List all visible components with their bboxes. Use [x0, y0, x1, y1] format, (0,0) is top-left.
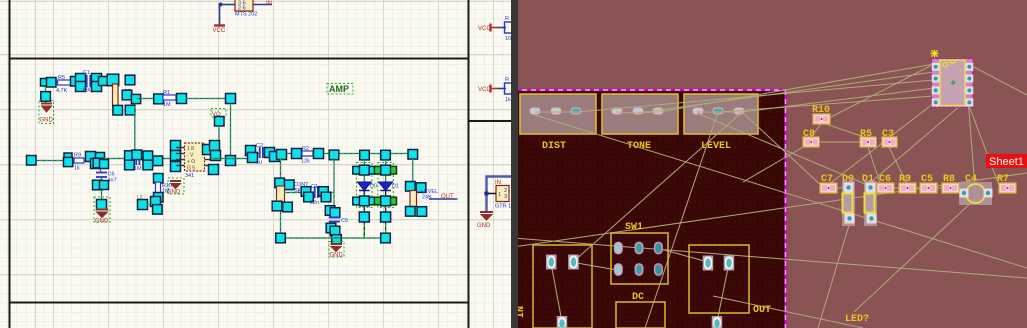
node d0g — [359, 212, 369, 222]
capacitor C6 — [96, 172, 117, 184]
node c6a — [93, 158, 103, 168]
wire to VCC top — [219, 5, 221, 26]
schematic svg — [0, 0, 513, 328]
node c3d — [321, 192, 331, 202]
wire rn f4 — [742, 88, 934, 112]
wire rn row link1 — [834, 187, 844, 189]
node r2d — [91, 159, 101, 169]
resistor edge1 — [505, 16, 513, 42]
pot CONT — [277, 182, 310, 203]
node c6b — [100, 160, 109, 169]
node m6 — [292, 149, 302, 159]
svg-text:G 5: G 5 — [187, 166, 195, 172]
node d1 top junction — [381, 150, 391, 160]
node m1 — [246, 146, 256, 156]
wire rn r10 r5 — [826, 124, 864, 137]
wire rn pads1 — [535, 111, 578, 113]
node st4 — [131, 94, 140, 103]
node d0 top junction — [360, 150, 370, 160]
node c1a — [275, 178, 285, 188]
pcb svg — [513, 0, 1027, 328]
wire rn out pads — [717, 263, 729, 322]
wire bottom row — [281, 237, 386, 239]
node d1a green — [374, 166, 382, 174]
wire corner down — [230, 104, 232, 158]
resistor edge2 — [505, 77, 513, 103]
node d1g — [381, 212, 391, 222]
resistor R1 — [163, 90, 176, 108]
resistor R8p — [942, 183, 959, 193]
svg-text:R9: R9 — [74, 153, 81, 159]
wire rn s2 — [742, 112, 824, 188]
wire d0 vertical — [363, 160, 365, 238]
node c6d — [100, 181, 109, 190]
wire rn f3 — [578, 80, 934, 112]
capacitor mc — [134, 160, 142, 173]
svg-text:1u: 1u — [256, 160, 262, 166]
jack IN — [533, 245, 592, 328]
sheet border top — [9, 58, 469, 60]
svg-text:1k: 1k — [74, 166, 80, 172]
svg-text:AMP: AMP — [329, 84, 349, 94]
node lv3 — [406, 207, 416, 217]
svg-text:- V: - V — [187, 153, 194, 159]
power VCC right2 — [478, 85, 506, 94]
board region — [513, 91, 786, 328]
node t2 — [47, 78, 57, 88]
node m5 — [277, 150, 287, 160]
svg-text:LED?: LED? — [845, 314, 869, 325]
node r2b — [64, 153, 72, 158]
resistor R10v — [154, 174, 173, 203]
sheet border right — [468, 0, 470, 328]
resistor R5p — [860, 129, 876, 147]
wire rn r10 c8 — [811, 124, 821, 137]
node d0b — [367, 166, 375, 174]
wire rn row link3 — [912, 187, 925, 189]
node r2c — [86, 152, 96, 162]
wire r1 to corner — [186, 98, 231, 100]
capacitor C5p — [920, 183, 937, 193]
node r1a — [154, 94, 164, 104]
capacitor C3p — [882, 129, 897, 147]
wire rn dip edge — [968, 64, 1027, 95]
sheet border right-pane — [468, 120, 511, 122]
node t4 — [76, 74, 86, 84]
capacitor C7p — [820, 183, 837, 193]
node t1 — [41, 79, 49, 87]
diode D0p — [842, 181, 855, 226]
wire row2 to ic — [104, 158, 176, 160]
sheet border bottom — [9, 302, 469, 304]
node ic right pins — [203, 141, 221, 175]
svg-text:GTR 1: GTR 1 — [495, 204, 511, 210]
node ic left pins — [171, 141, 181, 172]
node c1d — [283, 202, 293, 212]
diode D0 selection — [357, 163, 373, 208]
wire rn r5 d1 — [868, 147, 880, 183]
node t9 — [107, 74, 119, 86]
node d0c — [359, 165, 369, 175]
node mc C — [132, 150, 142, 160]
board edge right — [784, 90, 786, 328]
wire rn in-sw — [571, 262, 617, 270]
svg-text:1M: 1M — [163, 102, 171, 108]
pot LEVEL — [410, 189, 438, 207]
wire rn c4 led — [854, 199, 975, 312]
wire rn s4 — [573, 112, 742, 262]
svg-text:SW1: SW1 — [625, 222, 643, 233]
wire rn pads3 — [697, 111, 742, 113]
svg-text:GND: GND — [330, 253, 344, 259]
svg-text:12k: 12k — [301, 159, 310, 165]
wire row2 right — [250, 153, 417, 155]
node VO label — [211, 109, 226, 119]
tab Sheet1 — [986, 154, 1027, 168]
svg-text:D1: D1 — [392, 184, 399, 190]
svg-text:Sheet1: Sheet1 — [989, 156, 1024, 168]
node m3 — [265, 148, 275, 158]
capacitor C8p — [803, 129, 819, 147]
capacitor C6p — [877, 183, 894, 193]
ground GND1 — [39, 101, 54, 124]
wire rn cross2 — [535, 115, 1027, 268]
wire d1 vertical — [385, 160, 387, 238]
node c1b — [285, 180, 295, 190]
node mc F — [153, 156, 163, 166]
svg-text:R: R — [505, 16, 509, 22]
wire vo stub — [218, 126, 220, 140]
wire rn steep — [645, 112, 718, 328]
ground GND2 — [167, 178, 184, 196]
svg-text:OUT: OUT — [753, 305, 771, 316]
svg-text:1M: 1M — [134, 166, 142, 172]
svg-text:C5: C5 — [341, 218, 348, 224]
node st1 — [122, 90, 132, 100]
node t7 — [92, 82, 102, 92]
wire rn in pads — [551, 263, 562, 322]
node vo sq — [215, 117, 225, 127]
wire rn sw-out — [657, 248, 708, 262]
wire wiper to c3 — [284, 192, 334, 194]
node lv2 — [416, 183, 426, 193]
switch MTS 202 — [235, 0, 253, 12]
op-amp U1 341 — [176, 143, 213, 172]
node c6c — [93, 180, 103, 190]
wire rn s3 — [697, 113, 865, 184]
wire rn f1 — [659, 64, 934, 112]
wire rn row link5 — [954, 188, 964, 193]
wire cont branch — [280, 158, 282, 238]
wire rn cross3 — [513, 238, 1027, 278]
wire gtr to gnd — [487, 177, 514, 212]
wire level branch — [412, 159, 414, 211]
svg-text:DC: DC — [632, 292, 644, 303]
node d1d green — [374, 197, 382, 205]
wire rn dip c4 — [968, 99, 975, 188]
capacitor C5 — [329, 218, 348, 225]
power VCC right1 — [478, 24, 506, 33]
svg-text:3: 3 — [504, 194, 507, 200]
wire rn cross1 — [513, 173, 1027, 247]
svg-text:GND: GND — [40, 118, 54, 124]
node ic out — [226, 156, 236, 166]
wire ic out — [212, 158, 250, 160]
node mc B — [125, 160, 135, 170]
node t5 — [76, 82, 86, 92]
node mc A — [125, 151, 135, 161]
node r2e — [96, 153, 105, 162]
resistor R9 — [74, 153, 84, 172]
node r1b — [177, 94, 187, 104]
label AMP — [327, 84, 353, 95]
pot DIST — [520, 94, 596, 134]
node d0f — [359, 196, 369, 206]
node c3a — [301, 187, 311, 197]
svg-text:22n: 22n — [310, 200, 319, 206]
node mc D — [143, 151, 153, 161]
wire rn dip r7 — [968, 103, 1000, 188]
node d1f — [381, 196, 391, 206]
wire MTS to IN — [253, 4, 272, 6]
svg-text:4.7K: 4.7K — [56, 88, 68, 94]
node r2a — [27, 156, 37, 166]
node b2 — [381, 233, 391, 243]
svg-text:R1: R1 — [163, 90, 170, 96]
wire st to r1 — [136, 98, 155, 100]
ratsnest lines — [513, 64, 1027, 328]
node t6 — [92, 74, 102, 84]
svg-text:IN: IN — [266, 1, 272, 7]
wire to OUT — [429, 198, 458, 200]
node t3 — [71, 77, 81, 87]
node g1 — [41, 92, 51, 102]
svg-text:+ O: + O — [187, 159, 195, 165]
wire st down — [134, 106, 136, 151]
pot TONE — [602, 94, 678, 134]
node r1c — [226, 94, 236, 104]
node c3b — [304, 192, 314, 202]
wire top to MTS — [219, 3, 236, 7]
power VCC top — [213, 26, 226, 35]
node c5b — [330, 208, 340, 218]
wire rn c8 dl — [743, 146, 805, 182]
window separator — [511, 0, 519, 328]
capacitor C2 — [256, 143, 263, 166]
node d0d — [353, 197, 361, 205]
svg-text:VCC: VCC — [213, 28, 226, 34]
node d1e green — [389, 197, 397, 205]
wire rn dip c7 — [824, 103, 934, 188]
wire rn pads2 — [616, 112, 659, 113]
wire rn d0 down — [818, 222, 850, 328]
diode D1p — [864, 181, 877, 226]
wire rn c8 r5 — [819, 141, 860, 143]
node c1c — [272, 201, 282, 211]
svg-text:D0: D0 — [370, 184, 377, 190]
node c3c — [319, 187, 329, 197]
node level junction — [408, 150, 418, 160]
capacitor C4p — [959, 182, 992, 205]
svg-text:GND: GND — [477, 223, 491, 229]
resistor R7p — [999, 183, 1016, 193]
jack OUT — [689, 245, 749, 328]
node d0e — [367, 197, 375, 205]
wire rn row link2 — [891, 187, 903, 189]
node t8 — [99, 77, 108, 86]
node m8 — [329, 150, 339, 160]
node d0a — [353, 166, 361, 174]
marker origin asterisk — [931, 50, 939, 58]
capacitor C3s — [310, 184, 319, 206]
wire gnd1 stub — [45, 87, 47, 103]
svg-text:R5: R5 — [58, 75, 65, 81]
node mc E — [143, 160, 153, 170]
node b1 — [276, 233, 286, 243]
node st3 — [125, 105, 135, 115]
svg-text:1: 1 — [498, 192, 501, 198]
svg-text:R: R — [505, 77, 509, 83]
wire rn dip d1 — [869, 99, 968, 184]
diode D1 selection — [378, 163, 394, 208]
node t10 — [125, 75, 135, 85]
svg-text:R2: R2 — [302, 146, 309, 152]
node m4 — [270, 152, 280, 162]
wire rn c3 r9 — [889, 147, 907, 184]
node st2 — [113, 105, 123, 115]
connector DC — [616, 302, 665, 328]
node lv4 — [417, 207, 427, 217]
ground GND3 — [329, 242, 344, 259]
wire rn f5 — [720, 96, 934, 112]
wire rn r10 dip — [829, 64, 934, 118]
pot LEVEL — [684, 94, 758, 134]
diode D0 — [357, 182, 377, 191]
capacitor C1 — [83, 70, 92, 94]
resistor R10p — [812, 105, 830, 124]
node L2 cluster — [137, 195, 162, 214]
svg-text:GND: GND — [95, 219, 109, 225]
svg-text:1 8: 1 8 — [187, 146, 194, 152]
wire c3 down — [333, 158, 336, 241]
board edge top — [513, 89, 786, 91]
ic U1 dip8 — [932, 59, 973, 108]
wire c6 branch — [101, 165, 102, 201]
ground GND4 — [94, 197, 110, 225]
diode D1 — [379, 182, 399, 191]
wire rn led seg — [713, 296, 863, 328]
resistor R9p — [899, 183, 916, 193]
sheet border left — [9, 0, 11, 328]
svg-text:MTS 202: MTS 202 — [235, 12, 257, 18]
svg-text:OUT: OUT — [441, 194, 454, 200]
trimmer ST body — [113, 84, 132, 106]
node c5d — [330, 226, 340, 236]
node lv1 — [406, 182, 416, 192]
switch SW1 — [611, 233, 668, 284]
node c5a — [325, 206, 335, 216]
node m2 — [248, 153, 258, 163]
connector GTR — [496, 186, 509, 202]
node c5c — [326, 223, 336, 233]
node d1c — [381, 165, 391, 175]
wire row2 left — [34, 160, 74, 162]
node m7 — [314, 149, 324, 159]
wire rn row link4 — [933, 187, 947, 189]
node d1b green — [389, 166, 397, 174]
resistor R2 — [301, 146, 313, 165]
ground GND5 — [477, 212, 493, 229]
wire rn f2 — [637, 72, 934, 113]
svg-text:341: 341 — [185, 173, 194, 179]
resistor R5 — [56, 75, 72, 94]
wire top row — [46, 82, 113, 84]
node g4 — [97, 200, 107, 210]
svg-text:DIST: DIST — [542, 141, 566, 152]
